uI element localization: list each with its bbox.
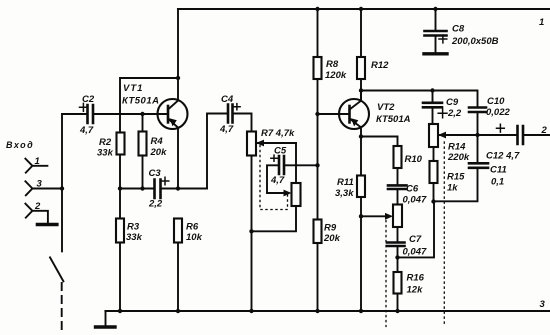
- wire: VT1 collector up to rail: [177, 9, 179, 101]
- svg-text:Вход: Вход: [6, 140, 34, 150]
- linkage: dashed gang R14 down: [443, 142, 445, 324]
- svg-text:2,2: 2,2: [148, 199, 163, 210]
- wire: R8 top lead from rail: [317, 9, 319, 57]
- wire: R4 bottom lead: [142, 156, 144, 189]
- svg-text:R10: R10: [405, 154, 423, 165]
- junction: R12 at rail: [359, 7, 363, 11]
- connector jack pin 3: [25, 181, 62, 195]
- wire: R9 bottom to ground rail: [317, 243, 319, 311]
- junction: R8 at rail: [315, 7, 319, 11]
- capacitor C10: [469, 108, 486, 113]
- wire: R4 top lead: [142, 114, 144, 132]
- svg-text:120k: 120k: [325, 70, 347, 81]
- junction: R3 at rail: [118, 309, 122, 313]
- junction: R2 feed on collector column: [176, 76, 180, 80]
- junction: R6 at rail: [176, 309, 180, 313]
- switch SA1: [61, 189, 63, 252]
- svg-text:R9: R9: [324, 223, 337, 234]
- junction: C9 branch: [430, 88, 434, 92]
- svg-text:VT1: VT1: [123, 83, 143, 94]
- wire: output to terminal 2: [523, 134, 550, 136]
- svg-text:R6: R6: [186, 222, 199, 233]
- junction: base row / R4 top: [140, 112, 144, 116]
- linkage: dashed gang R7 to R7': [260, 145, 288, 209]
- junction: R16 at rail: [395, 309, 399, 313]
- svg-text:C6: C6: [406, 184, 419, 195]
- wire: R7 wiper: [256, 142, 296, 144]
- junction: R2/R3 node: [118, 186, 122, 190]
- polarity + of C9: [438, 109, 447, 118]
- svg-text:4,7: 4,7: [270, 175, 285, 186]
- resistor R4: [139, 132, 147, 156]
- svg-text:0,022: 0,022: [486, 107, 510, 118]
- capacitor C9: [423, 103, 442, 108]
- wire: C9 bottom to R14: [432, 107, 434, 124]
- resistor R2: [117, 133, 125, 155]
- junction: wiper row / C10-C11 column: [475, 133, 479, 137]
- junction: R11 bottom / pot wiper tap: [359, 214, 363, 218]
- wire: C11 bottom to R15 node: [434, 168, 478, 202]
- polarity + of C5: [271, 155, 277, 161]
- capacitor C11: [469, 163, 488, 168]
- junction: emitter node: [359, 134, 363, 138]
- svg-text:0,1: 0,1: [491, 177, 504, 188]
- svg-text:4,7: 4,7: [79, 125, 94, 136]
- svg-text:0,047: 0,047: [403, 195, 427, 206]
- svg-text:2: 2: [34, 201, 41, 212]
- svg-text:3,3k: 3,3k: [335, 188, 354, 199]
- capacitor C4: [228, 105, 233, 123]
- svg-text:R16: R16: [407, 273, 425, 284]
- potentiometer tone pot: [393, 205, 402, 228]
- capacitor C7: [387, 243, 405, 247]
- svg-text:10k: 10k: [186, 232, 203, 243]
- wire: R3 bottom to ground rail: [119, 243, 121, 312]
- wire: R14 bottom to R15: [433, 147, 435, 161]
- junction: input node dot: [60, 186, 64, 190]
- svg-text:C12 4,7: C12 4,7: [486, 151, 520, 162]
- svg-text:C8: C8: [452, 24, 465, 35]
- svg-text:2: 2: [541, 125, 548, 136]
- svg-text:C2: C2: [82, 94, 95, 105]
- wire: C10 bottom to wiper row: [477, 112, 479, 135]
- wire: R10 bottom to C6: [397, 168, 399, 184]
- wire: C6 to tone pot top: [397, 189, 399, 205]
- potentiometer R7: [247, 132, 256, 156]
- wire: VT2 collector stub: [360, 91, 362, 101]
- polarity + of C8: [439, 35, 447, 43]
- svg-text:R3: R3: [127, 222, 140, 233]
- wire: VT1 emitter down to bias row: [177, 128, 179, 189]
- wire: tone pot wiper from R11 node: [361, 215, 388, 217]
- wire: C4 to R7 top: [233, 114, 252, 132]
- resistor R8: [314, 57, 322, 79]
- capacitor C8: [425, 31, 447, 36]
- wire: R14 wiper to output: [438, 134, 518, 136]
- junction: C7/R16 feedback node: [395, 255, 399, 259]
- svg-text:R7 4,7k: R7 4,7k: [261, 128, 295, 139]
- resistor R16: [394, 272, 402, 294]
- wire: R8/R9 column middle: [317, 114, 319, 220]
- wire: R3 top lead: [119, 189, 121, 219]
- svg-text:3: 3: [37, 179, 43, 190]
- svg-text:20k: 20k: [323, 233, 341, 244]
- wire: R12 top lead from rail: [360, 9, 362, 57]
- svg-text:КТ501А: КТ501А: [122, 96, 159, 107]
- polarity + of C12: [497, 124, 505, 132]
- wire: bias/emitter row (C3 row): [120, 188, 155, 190]
- wire: tone pot bottom to C7: [397, 227, 399, 242]
- ground (jack pin 2): [37, 223, 57, 226]
- junction: VT2 base node: [315, 112, 319, 116]
- svg-text:C5: C5: [274, 146, 287, 157]
- wire: R8 bottom to VT2 base: [317, 79, 319, 114]
- wire: C11 top lead: [477, 135, 479, 163]
- svg-text:C4: C4: [221, 94, 234, 105]
- svg-text:1: 1: [35, 156, 40, 167]
- svg-text:20k: 20k: [150, 147, 168, 158]
- svg-text:0,047: 0,047: [403, 247, 427, 258]
- wire: C8 bottom lead: [435, 36, 437, 53]
- svg-text:1: 1: [539, 17, 544, 28]
- junction: pot R7' return on R7 column: [249, 229, 253, 233]
- svg-text:C10: C10: [487, 96, 505, 107]
- resistor R12: [357, 57, 365, 79]
- junction: R9 at rail: [315, 309, 319, 313]
- svg-text:200,0x50В: 200,0x50В: [451, 36, 499, 47]
- svg-text:33k: 33k: [126, 232, 143, 243]
- wire: feedback node to R15/C11 node: [398, 202, 435, 258]
- junction: R7 at rail: [249, 309, 253, 313]
- svg-text:C7: C7: [409, 234, 422, 245]
- svg-text:220k: 220k: [447, 152, 470, 163]
- svg-text:R14: R14: [448, 142, 466, 153]
- svg-text:1k: 1k: [447, 183, 458, 194]
- wire: VT2 emitter down: [360, 127, 362, 175]
- wire: R11 bottom to ground rail: [360, 197, 362, 311]
- potentiometer R7' (ganged section): [292, 183, 301, 206]
- polarity + of C4: [234, 104, 240, 110]
- svg-text:2,2: 2,2: [447, 108, 462, 119]
- connector jack pin 2: [25, 204, 48, 223]
- ground (main): [105, 311, 107, 326]
- svg-text:КТ501А: КТ501А: [376, 114, 411, 125]
- wire: C5 left plate to pot R7' wiper: [267, 165, 287, 193]
- svg-text:3: 3: [540, 299, 546, 310]
- junction: emitter/R6 node: [176, 186, 180, 190]
- wire: R7 bottom to ground rail: [251, 156, 253, 312]
- svg-text:C3: C3: [149, 168, 162, 179]
- wire: collector output row to C10: [361, 91, 478, 108]
- capacitor C3: [155, 180, 161, 199]
- wire: input to C2: [62, 113, 88, 115]
- capacitor C6: [388, 185, 407, 189]
- svg-text:12k: 12k: [407, 285, 424, 296]
- resistor R15: [430, 161, 438, 183]
- wire: R2 bottom to bias row: [119, 155, 121, 189]
- wire: C9 top lead: [432, 91, 434, 103]
- resistor R6: [174, 219, 182, 243]
- svg-text:4,7: 4,7: [219, 124, 234, 135]
- polarity + of C3: [161, 177, 169, 185]
- resistor R9: [314, 220, 322, 244]
- connector jack pin 1: [25, 159, 47, 173]
- wire: R15 bottom lead: [433, 183, 435, 202]
- wire: emitter node up and over to C4: [207, 114, 228, 189]
- wire: R12 bottom to VT2 collector: [360, 79, 362, 101]
- svg-text:33k: 33k: [97, 148, 114, 159]
- resistor R3: [116, 219, 124, 243]
- wire: R7 wiper down to pot R7' top: [295, 143, 297, 183]
- wire: C7 to R16: [397, 246, 399, 272]
- wire: emitter row to R10 top: [361, 137, 398, 147]
- wire: R2 top to collector column: [120, 78, 178, 133]
- junction: C5 on R8/R9 column: [315, 163, 319, 167]
- capacitor C12: [518, 126, 524, 144]
- svg-text:R12: R12: [371, 60, 389, 71]
- linkage: dashed gang tone pot down: [385, 221, 387, 327]
- wire: R6 bottom to ground rail: [177, 243, 179, 312]
- potentiometer R14: [429, 124, 438, 147]
- wire: VT2 base lead: [318, 113, 350, 115]
- resistor R11: [357, 176, 365, 198]
- svg-text:R2: R2: [99, 137, 112, 148]
- junction: R4 bottom node: [140, 186, 144, 190]
- resistor R10: [394, 146, 402, 168]
- svg-text:R15: R15: [447, 172, 465, 183]
- svg-text:C11: C11: [490, 165, 507, 176]
- svg-text:R4: R4: [151, 136, 164, 147]
- power rail top (terminal 1): [178, 8, 550, 10]
- wire: C8 top lead from rail: [435, 9, 437, 31]
- wire: VT1 base row: [93, 113, 168, 115]
- wire: R16 bottom to ground rail: [397, 294, 399, 312]
- junction: collector node: [359, 88, 363, 92]
- wire: C5 right plate to R8/R9 column: [284, 164, 318, 166]
- svg-text:R11: R11: [337, 177, 354, 188]
- transistor VT2: [339, 99, 369, 129]
- transistor VT1: [158, 99, 188, 129]
- ground rail bottom (terminal 3): [106, 310, 550, 312]
- wire: pot R7' bottom to R7 column: [252, 206, 297, 231]
- polarity + of C2: [80, 103, 88, 111]
- svg-text:R8: R8: [326, 59, 339, 70]
- capacitor C5: [279, 156, 284, 174]
- svg-text:VT2: VT2: [377, 102, 395, 113]
- junction: R15/C11 node: [431, 199, 435, 203]
- capacitor C2: [88, 105, 94, 123]
- wire: input column up to C2 row: [61, 114, 63, 189]
- svg-text:C9: C9: [446, 97, 459, 108]
- junction: C8 at rail: [433, 7, 437, 11]
- junction: R11 at rail: [359, 309, 363, 313]
- ground (C8): [424, 52, 447, 55]
